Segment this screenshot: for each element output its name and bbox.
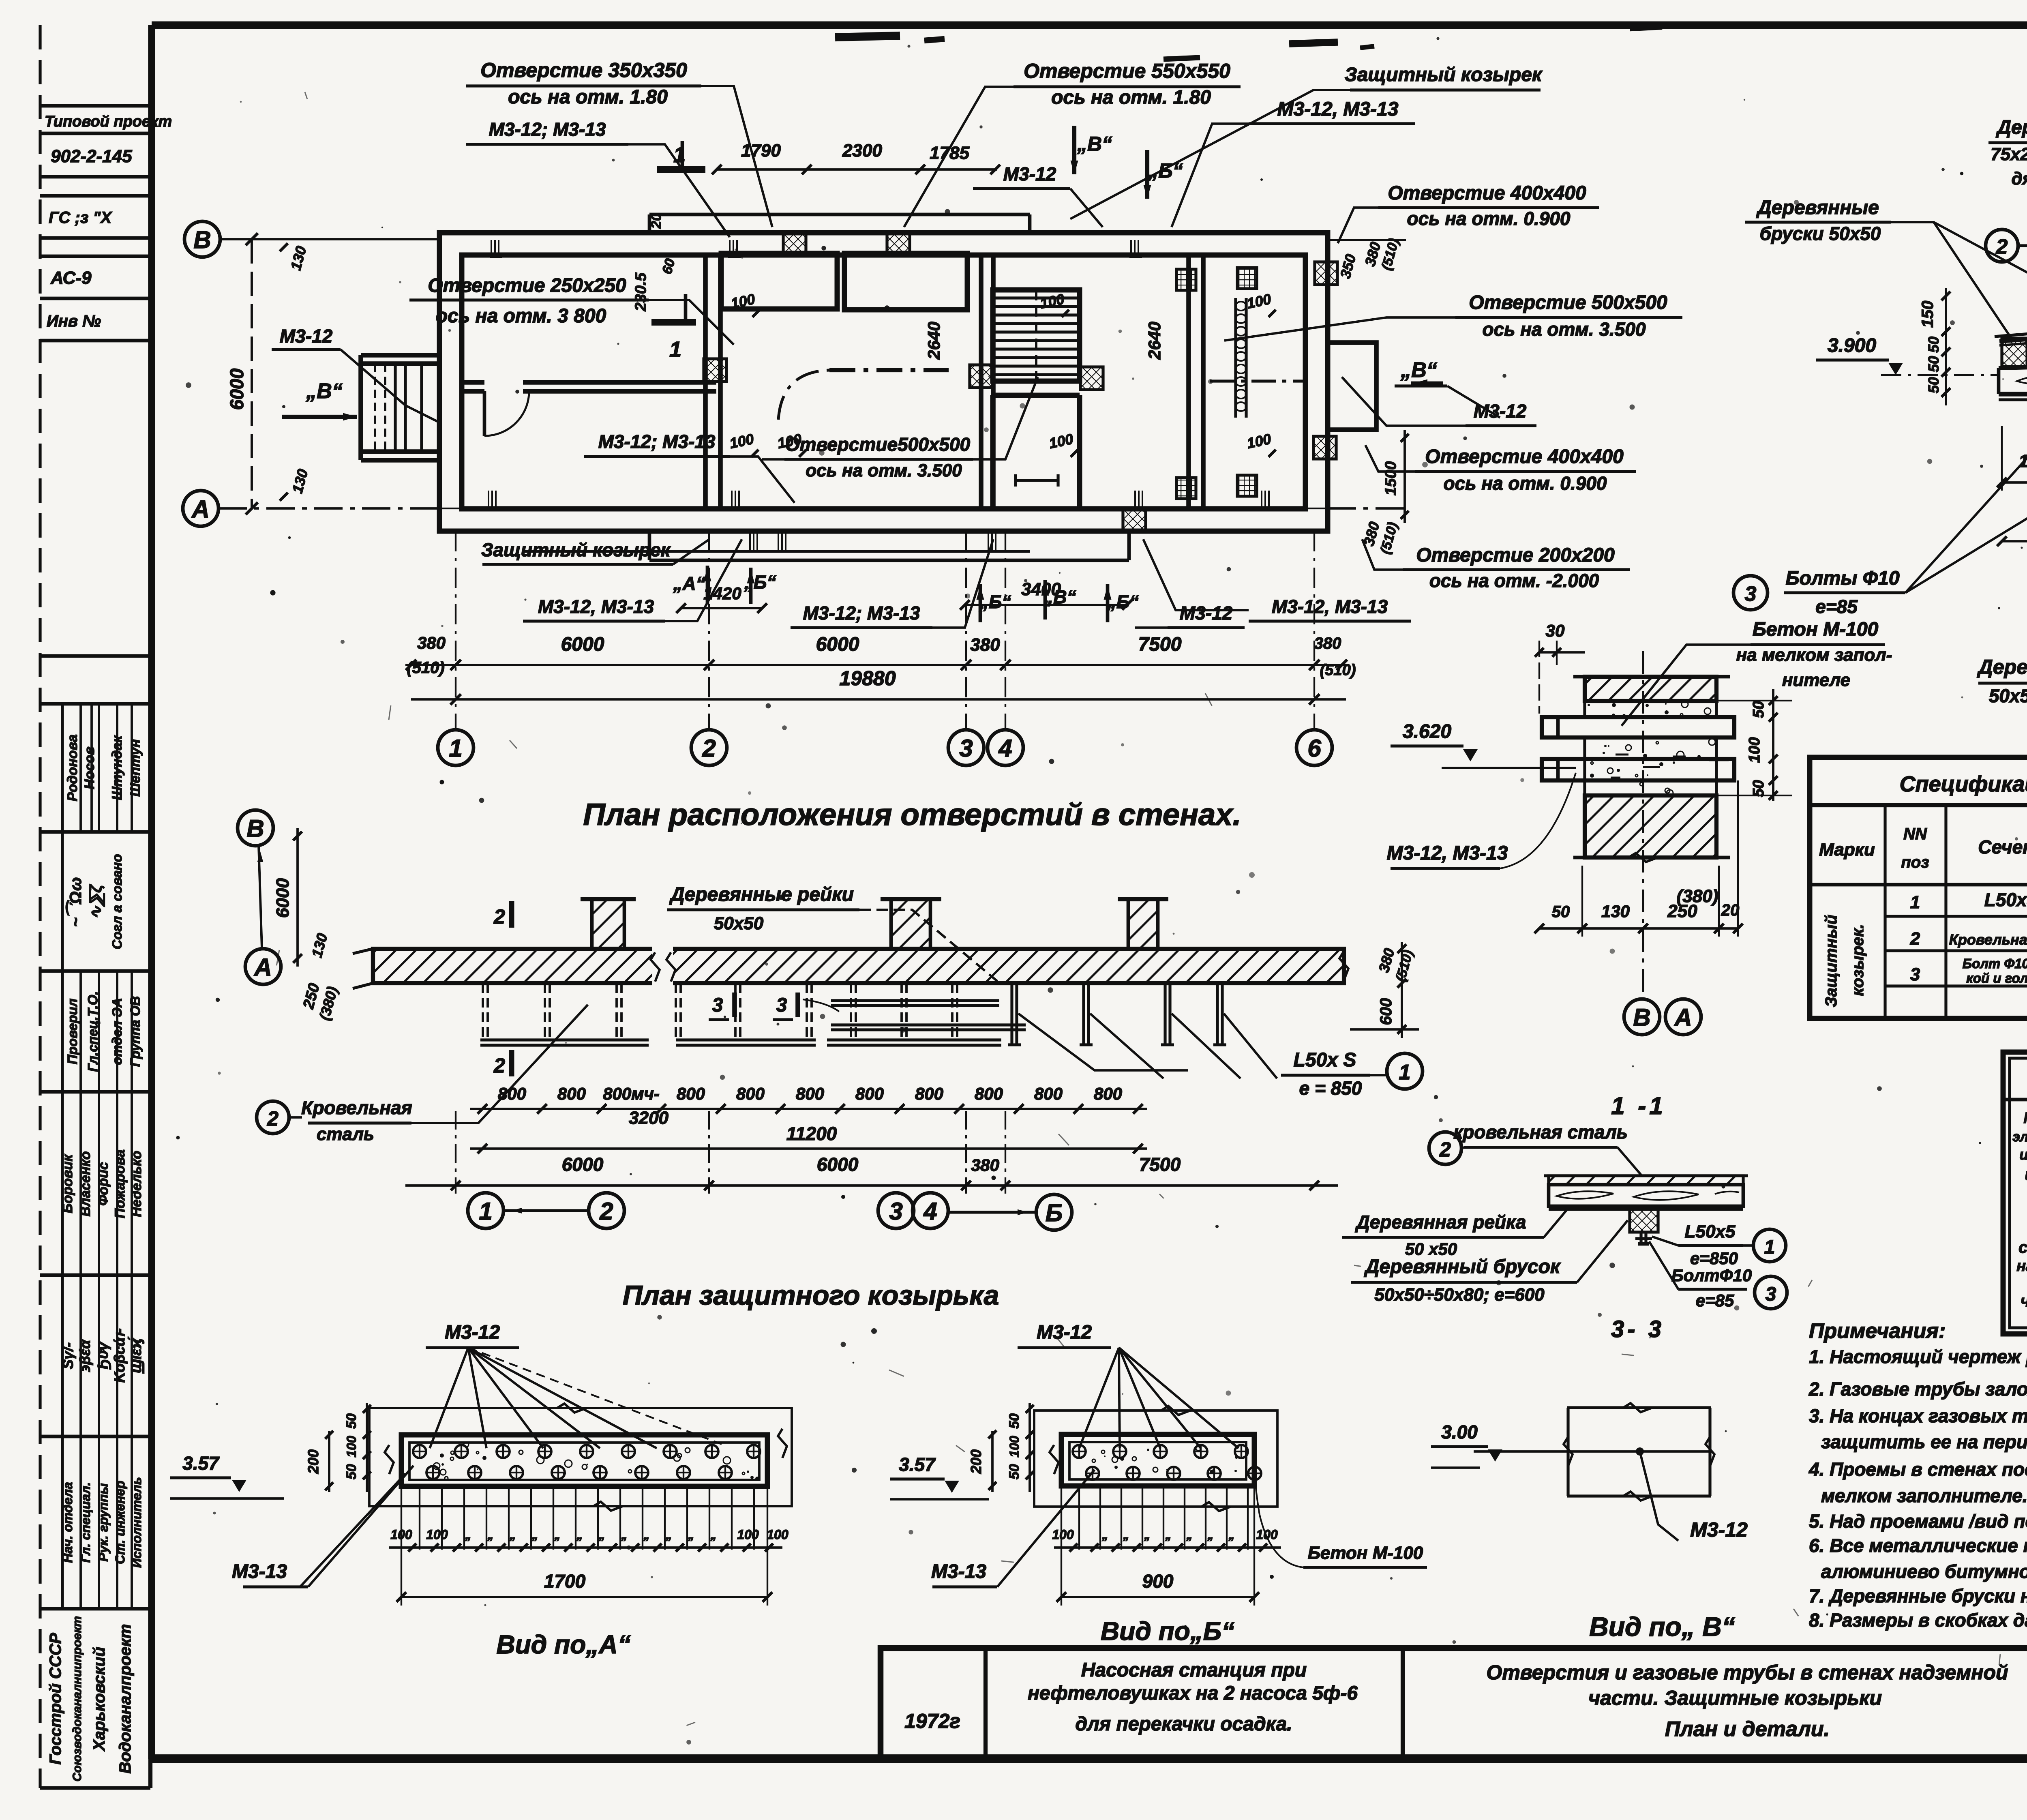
svg-text:Пожарова: Пожарова <box>112 1149 128 1218</box>
detail 2-2 batten squares crosshatch <box>2002 338 2027 367</box>
svg-text:3: 3 <box>712 995 723 1016</box>
svg-text:3.57: 3.57 <box>899 1454 936 1475</box>
axis dash-dot line right room <box>1210 379 1305 382</box>
svg-text:Деревянный брусок: Деревянный брусок <box>1977 656 2027 678</box>
outside stair left <box>361 353 439 358</box>
svg-text:1: 1 <box>1399 1061 1411 1084</box>
door leaf and swing arc left room <box>483 391 486 436</box>
svg-text:7. Деревянные бруски необходим: 7. Деревянные бруски необходимо антисепт… <box>1809 1585 2027 1606</box>
svg-text:бруски 50х50: бруски 50х50 <box>1760 223 1881 244</box>
elevation left end line <box>371 949 375 983</box>
elevation circle 1 right <box>1387 1053 1423 1089</box>
vid A dim 1700 <box>401 1596 767 1598</box>
leader M3-12 M3-13 to wall bottom <box>1143 539 1249 610</box>
vedomost data rows <box>2003 1226 2027 1227</box>
elevation axis extension lines <box>455 1111 456 1194</box>
svg-text:Защитный: Защитный <box>1822 915 1840 1007</box>
svg-text:200: 200 <box>305 1449 321 1474</box>
svg-text:алюминиево битумной краской АЛ: алюминиево битумной краской АЛ-117 (СН-2… <box>1821 1561 2027 1582</box>
svg-text:М3-12, М3-13: М3-12, М3-13 <box>1387 842 1508 864</box>
elevation axis connectors with arrows <box>504 1209 589 1212</box>
svg-text:М3-12: М3-12 <box>1474 401 1527 422</box>
spec table title row <box>1810 803 2027 807</box>
elevation circled 2 krovelnaya stal <box>257 1101 289 1134</box>
svg-text:стены: стены <box>2018 1239 2027 1256</box>
elevation axis circles <box>468 1193 504 1228</box>
title block outer <box>881 1648 2027 1758</box>
svg-text:2: 2 <box>1996 235 2008 259</box>
svg-text:Защитный козырек: Защитный козырек <box>481 539 671 560</box>
svg-text:План и детали.: План и детали. <box>1665 1717 1830 1741</box>
svg-text:Шептун: Шептун <box>128 739 143 797</box>
svg-text:5. Над проемами /вид по„А“и„Б“: 5. Над проемами /вид по„А“и„Б“/ устраива… <box>1809 1511 2027 1532</box>
elevation axis connector <box>259 846 262 949</box>
svg-text:800: 800 <box>796 1084 824 1103</box>
svg-text:Власенко: Власенко <box>78 1151 93 1217</box>
svg-text:„: „ <box>643 1528 650 1542</box>
svg-text:М3-12, М3-13: М3-12, М3-13 <box>1277 99 1399 120</box>
detail 2-2 plank wood grain <box>2017 375 2027 386</box>
svg-text:1. Настоящий чертеж рассматрив: 1. Настоящий чертеж рассматривать совмес… <box>1809 1346 2027 1367</box>
plan axis extension lines <box>455 531 456 730</box>
svg-text:Сечение: Сечение <box>1978 836 2027 857</box>
svg-text:„: „ <box>554 1528 561 1542</box>
svg-text:3.00: 3.00 <box>1441 1421 1478 1443</box>
detail 2-2 dim row 600 <box>2002 540 2027 542</box>
svg-text:Боровик: Боровик <box>60 1154 75 1213</box>
svg-text:800: 800 <box>1034 1084 1063 1103</box>
svg-text:800: 800 <box>557 1084 586 1103</box>
svg-text:Примечания:: Примечания: <box>1809 1319 1946 1343</box>
svg-text:1500: 1500 <box>1382 461 1399 496</box>
svg-text:800: 800 <box>975 1084 1003 1103</box>
svg-text:Вид по„А“: Вид по„А“ <box>496 1630 630 1659</box>
svg-text:3.620: 3.620 <box>1403 721 1451 742</box>
svg-text:козырек.: козырек. <box>1849 924 1867 996</box>
svg-text:Проверил: Проверил <box>65 999 80 1064</box>
svg-text:ось на отм. 1.80: ось на отм. 1.80 <box>1051 87 1211 108</box>
svg-text:50 х50: 50 х50 <box>1405 1239 1457 1258</box>
svg-text:800: 800 <box>855 1084 884 1103</box>
svg-text:(510): (510) <box>1320 662 1356 679</box>
svg-text:2: 2 <box>267 1107 279 1130</box>
svg-text:„Б“: „Б“ <box>979 591 1011 612</box>
svg-text:Б: Б <box>1046 1199 1063 1226</box>
plan bottom dim row 1 <box>405 664 1346 666</box>
svg-text:„: „ <box>666 1528 672 1542</box>
svg-text:В: В <box>193 226 211 253</box>
svg-text:L50х5: L50х5 <box>1685 1222 1736 1241</box>
svg-text:„В“: „В“ <box>1077 133 1112 155</box>
svg-text:100: 100 <box>1007 1436 1022 1458</box>
svg-text:2: 2 <box>493 1054 505 1077</box>
axis line B left <box>184 221 220 257</box>
svg-text:ось на отм. 3.500: ось на отм. 3.500 <box>1482 319 1646 340</box>
svg-text:7500: 7500 <box>1138 634 1182 655</box>
vid V wall lines <box>1567 1406 1711 1409</box>
plan bottom dim row 19880 <box>411 698 1346 701</box>
svg-text:50: 50 <box>1750 701 1767 718</box>
svg-text:„: „ <box>1186 1528 1193 1542</box>
svg-text:„: „ <box>1207 1528 1214 1542</box>
svg-text:„А“: „А“ <box>673 573 705 594</box>
svg-text:800: 800 <box>915 1084 943 1103</box>
svg-text:М3-12: М3-12 <box>1037 1322 1092 1343</box>
svg-text:50: 50 <box>1925 377 1942 393</box>
vid B canopy extent outline <box>1034 1411 1277 1507</box>
dim row 1790 2300 1785 <box>717 168 997 171</box>
elevation section mark 2 bottom <box>509 1050 514 1076</box>
elevation dim 6000 vertical <box>296 828 299 967</box>
svg-text:3: 3 <box>1910 965 1920 984</box>
detail 1-1 roofing steel strip <box>1549 1176 1743 1185</box>
detail 2-2 circle 3 bolty <box>1733 576 1768 610</box>
svg-text:Согл а совано: Согл а совано <box>109 854 124 949</box>
svg-text:11200: 11200 <box>786 1123 837 1144</box>
door swing arc middle room dash-dot <box>778 370 829 420</box>
svg-text:50: 50 <box>1925 356 1942 372</box>
svg-text:Гл.спец.Т.О.: Гл.спец.Т.О. <box>85 991 100 1072</box>
sleeve detail right dims 50 100 50 <box>1772 689 1774 801</box>
svg-text:Ϣιεϗ́: Ϣιεϗ́ <box>128 1337 144 1374</box>
svg-text:100: 100 <box>767 1527 789 1542</box>
svg-text:6. Все металлические конструкц: 6. Все металлические конструкции козырьк… <box>1809 1535 2027 1556</box>
svg-text:3- 3: 3- 3 <box>1611 1316 1665 1342</box>
title block verticals <box>984 1648 988 1758</box>
svg-text:„: „ <box>1228 1528 1235 1542</box>
svg-text:50х50: 50х50 <box>714 913 764 933</box>
svg-text:50: 50 <box>1925 337 1942 353</box>
svg-text:2: 2 <box>702 735 716 762</box>
svg-text:„: „ <box>510 1528 516 1542</box>
stair block treads <box>993 290 1080 381</box>
svg-text:6000: 6000 <box>562 1154 604 1175</box>
sleeve detail pipe bar upper <box>1542 717 1734 737</box>
svg-text:Насосная станция при: Насосная станция при <box>1081 1659 1307 1681</box>
svg-text:нефтеловушках на 2 насоса 5ф-6: нефтеловушках на 2 насоса 5ф-6 <box>1028 1683 1358 1704</box>
vid A bolts bottom row <box>426 1466 439 1479</box>
svg-text:Вид по„Б“: Вид по„Б“ <box>1101 1616 1234 1646</box>
svg-text:„В“: „В“ <box>306 379 343 403</box>
elevation dim row 800 <box>470 1108 1147 1110</box>
elevation section mark 2 top <box>509 901 514 928</box>
svg-text:75х20 прибить гвоз-: 75х20 прибить гвоз- <box>1991 144 2027 164</box>
vid B left dims <box>1028 1403 1031 1492</box>
svg-text:части: части <box>2021 1292 2027 1310</box>
svg-text:В: В <box>246 815 264 842</box>
svg-text:М3-12: М3-12 <box>445 1322 500 1343</box>
svg-text:М3-13: М3-13 <box>232 1561 287 1582</box>
svg-text:Отверстие 400х400: Отверстие 400х400 <box>1425 446 1624 467</box>
svg-text:800: 800 <box>498 1084 526 1103</box>
svg-text:(510): (510) <box>407 659 444 677</box>
svg-text:мелком заполнителе.: мелком заполнителе. <box>1821 1485 2027 1506</box>
svg-text:3400: 3400 <box>1021 579 1061 599</box>
svg-text:М3-12: М3-12 <box>1690 1518 1748 1541</box>
detail 2-2 canopy wood plank <box>1999 362 2027 368</box>
vid A plate speckles <box>565 1460 572 1467</box>
svg-text:3: 3 <box>889 1198 902 1225</box>
svg-text:50: 50 <box>344 1464 359 1479</box>
elevation battens left group <box>482 983 484 1040</box>
dim 3400 <box>965 604 1127 606</box>
svg-text:800мч-: 800мч- <box>603 1084 660 1103</box>
svg-text:элемента: элемента <box>2012 1129 2027 1145</box>
svg-text:Группа ОВ: Группа ОВ <box>128 996 143 1067</box>
spec table data row lines <box>1885 915 2027 918</box>
svg-text:19880: 19880 <box>839 667 896 690</box>
scan noise speckles <box>1132 377 1134 380</box>
svg-text:∿⅀ζ: ∿⅀ζ <box>87 884 105 920</box>
svg-text:„: „ <box>1102 1528 1108 1542</box>
svg-text:„: „ <box>576 1528 583 1542</box>
svg-text:1700: 1700 <box>544 1571 586 1592</box>
svg-text:„: „ <box>710 1528 717 1542</box>
svg-text:Харьковский: Харьковский <box>90 1647 108 1751</box>
svg-text:Отверстия и газовые трубы в ст: Отверстия и газовые трубы в стенах надзе… <box>1486 1661 2008 1684</box>
svg-text:штук: штук <box>2025 1166 2027 1183</box>
svg-text:2. Газовые трубы заложить под: 2. Газовые трубы заложить под наблюдение… <box>1808 1378 2027 1400</box>
vid V axis line with node <box>1474 1450 1709 1453</box>
svg-text:для перекачки осадка.: для перекачки осадка. <box>1075 1713 1292 1735</box>
svg-text:ось на отм. 0.900: ось на отм. 0.900 <box>1443 473 1607 494</box>
svg-text:L50х S: L50х S <box>1294 1049 1356 1071</box>
svg-text:4: 4 <box>998 735 1012 762</box>
svg-text:100: 100 <box>737 1527 759 1542</box>
svg-text:Отверстие 550х550: Отверстие 550х550 <box>1024 60 1230 82</box>
svg-text:кой и головкой: кой и головкой <box>1966 971 2027 986</box>
svg-text:е=850: е=850 <box>1690 1249 1738 1268</box>
elevation angle rails middle <box>831 999 999 1002</box>
svg-text:ось на отм. 3.500: ось на отм. 3.500 <box>806 461 962 480</box>
vid B extension grid <box>1078 1486 1080 1550</box>
svg-text:М3-12; М3-13: М3-12; М3-13 <box>489 119 606 140</box>
svg-text:„: „ <box>1123 1528 1129 1542</box>
svg-text:100: 100 <box>426 1527 448 1542</box>
svg-text:М3-12: М3-12 <box>1180 602 1233 624</box>
svg-text:1 -1: 1 -1 <box>1611 1092 1666 1119</box>
elevation bottom board left <box>480 1038 649 1041</box>
room box middle right <box>844 253 967 310</box>
room box middle left <box>721 253 837 309</box>
svg-text:7500: 7500 <box>1139 1154 1181 1175</box>
vid A dim line 100s <box>389 1546 782 1549</box>
svg-text:Отверстие 350х350: Отверстие 350х350 <box>480 59 687 81</box>
plan axis circles bottom <box>438 730 474 765</box>
svg-text:Болт Ф10 с гай-: Болт Ф10 с гай- <box>1963 956 2027 971</box>
svg-text:„В“: „В“ <box>1400 358 1437 382</box>
svg-text:Гл. специал.: Гл. специал. <box>78 1482 93 1563</box>
detail 2-2 dim row 150 300 150 <box>2002 481 2027 484</box>
svg-text:В: В <box>1633 1004 1650 1031</box>
elevation pilaster 3 <box>1128 899 1158 949</box>
svg-text:3.900: 3.900 <box>1828 335 1876 356</box>
svg-text:поз: поз <box>1901 853 1929 871</box>
svg-text:А: А <box>253 954 272 981</box>
svg-text:А: А <box>191 495 209 523</box>
svg-text:Деревянный брусок: Деревянный брусок <box>1364 1256 1561 1278</box>
svg-text:БолтФ10: БолтФ10 <box>1671 1266 1752 1285</box>
svg-text:Бетон М-100: Бетон М-100 <box>1308 1543 1423 1563</box>
scan smudges top <box>835 36 900 37</box>
stamp upper cells <box>40 104 150 108</box>
sleeve detail axis circles B A <box>1624 999 1660 1035</box>
svg-text:ось на отм. 3 800: ось на отм. 3 800 <box>436 305 606 327</box>
svg-text:50х50÷50х80; е=600: 50х50÷50х80; е=600 <box>1989 685 2027 706</box>
left stamp column rails <box>39 25 41 1788</box>
svg-text:200: 200 <box>968 1449 984 1474</box>
svg-text:2300: 2300 <box>842 141 882 161</box>
svg-text:Родонова: Родонова <box>65 734 80 801</box>
svg-text:„: „ <box>1165 1528 1172 1542</box>
svg-text:План расположения отверстий: План расположения отверстий в стенах. <box>583 797 1241 832</box>
svg-text:3.57: 3.57 <box>182 1453 220 1474</box>
svg-text:50: 50 <box>1552 903 1570 921</box>
canopy outline above top wall <box>649 213 1030 217</box>
svg-text:380: 380 <box>970 635 1000 655</box>
svg-text:150: 150 <box>1919 301 1937 328</box>
vid A canopy extent outline <box>369 1408 792 1506</box>
vid B plate speckles <box>1114 1466 1118 1469</box>
svg-text:„: „ <box>621 1528 628 1542</box>
svg-text:дями к пробкам: дями к пробкам <box>2011 169 2027 189</box>
svg-text:Отверстие 200х200: Отверстие 200х200 <box>1416 544 1615 566</box>
svg-text:6000: 6000 <box>561 634 604 655</box>
svg-text:М3-12; М3-13: М3-12; М3-13 <box>598 431 716 452</box>
embedded plate marks <box>729 240 731 257</box>
svg-text:Деревянные рейки: Деревянные рейки <box>669 884 854 905</box>
svg-text:100: 100 <box>1052 1527 1074 1542</box>
svg-text:2: 2 <box>1439 1138 1451 1161</box>
ladder right room <box>1234 298 1237 418</box>
vedomost table outer box <box>2003 1052 2027 1334</box>
detail 1-1 batten block <box>1630 1209 1658 1232</box>
svg-text:А: А <box>1673 1004 1692 1031</box>
svg-text:100: 100 <box>1256 1527 1278 1542</box>
detail 1-1 wood plank body <box>1549 1185 1743 1206</box>
svg-text:50: 50 <box>1007 1464 1022 1479</box>
svg-text:М3-13: М3-13 <box>931 1561 986 1582</box>
svg-text:Деревянная рейка: Деревянная рейка <box>1354 1211 1526 1233</box>
partition wall stairwell right <box>1186 255 1191 509</box>
elevation pilaster 2 <box>891 899 930 949</box>
interior wall left room with door opening <box>462 380 484 385</box>
svg-text:„: „ <box>1144 1528 1151 1542</box>
svg-text:Водоканалпроект: Водоканалпроект <box>116 1624 134 1774</box>
vid B bolts top row <box>1073 1445 1086 1458</box>
dim 6000 vertical left <box>251 239 253 508</box>
svg-text:3. На концах газовых труб для: 3. На концах газовых труб для электрокаб… <box>1809 1405 2027 1426</box>
svg-text:380: 380 <box>1314 635 1341 652</box>
svg-text:Носов: Носов <box>82 746 97 789</box>
svg-text:„: „ <box>688 1528 694 1542</box>
svg-text:нителе: нителе <box>1782 670 1850 690</box>
detail 2-2 left dim stack <box>1945 288 1947 405</box>
svg-text:Форис: Форис <box>96 1162 111 1206</box>
svg-text:М3-12, М3-13: М3-12, М3-13 <box>538 596 654 617</box>
svg-text:2: 2 <box>1910 929 1920 949</box>
svg-text:NN: NN <box>1903 825 1927 843</box>
elevation wall band hatched <box>373 949 1344 983</box>
svg-text:100: 100 <box>1746 737 1763 763</box>
svg-text:380: 380 <box>971 1155 999 1175</box>
opening hatch squares on walls <box>783 232 806 254</box>
svg-text:3: 3 <box>776 995 787 1016</box>
svg-text:кровельная сталь: кровельная сталь <box>1453 1121 1628 1143</box>
svg-text:и колич: и колич <box>2019 1146 2027 1163</box>
svg-text:3: 3 <box>959 735 973 762</box>
stamp signature table box <box>40 654 150 658</box>
svg-text:е = 850: е = 850 <box>1299 1078 1362 1099</box>
mesh squares right room <box>1176 269 1196 290</box>
svg-text:М3-12: М3-12 <box>280 326 333 347</box>
svg-text:части. Защитные козырьки: части. Защитные козырьки <box>1588 1687 1882 1709</box>
svg-text:Марки: Марки <box>1819 840 1875 860</box>
svg-text:20: 20 <box>1721 901 1740 919</box>
svg-text:ось на отм. 1.80: ось на отм. 1.80 <box>508 86 668 108</box>
svg-text:6000: 6000 <box>817 1154 859 1175</box>
svg-text:Кровельная: Кровельная <box>301 1097 412 1118</box>
spec table outer box <box>1810 757 2027 1018</box>
svg-text:130: 130 <box>1601 902 1630 921</box>
svg-text:Типовой проект: Типовой проект <box>45 113 172 130</box>
sleeve detail concrete band top speckled <box>1585 701 1716 717</box>
svg-text:230.5: 230.5 <box>632 272 649 312</box>
detail 1-1 bolt <box>1639 1232 1642 1244</box>
svg-text:План защитного козырька: План защитного козырька <box>623 1280 999 1311</box>
svg-text:2640: 2640 <box>1145 322 1164 360</box>
spec table column lines <box>1883 805 1886 1018</box>
svg-text:Исполнитель: Исполнитель <box>129 1477 144 1568</box>
stair lower room <box>993 393 1080 398</box>
vid A bolts top row <box>413 1445 426 1458</box>
svg-text:е=85: е=85 <box>1696 1291 1734 1310</box>
svg-text:1790: 1790 <box>741 141 781 161</box>
elevation band break marks <box>652 945 673 986</box>
partition wall axis3 <box>979 255 984 509</box>
svg-text:ГС ;з "Х: ГС ;з "Х <box>49 209 112 227</box>
detail 1-1 circle 2 label <box>1429 1132 1461 1164</box>
svg-text:50: 50 <box>344 1413 359 1429</box>
elevation pilaster 1 <box>592 899 624 949</box>
svg-text:1: 1 <box>449 735 462 762</box>
right annex room <box>1328 343 1376 430</box>
svg-text:М3-12: М3-12 <box>1003 163 1056 184</box>
svg-text:Союзводоканалниипроект: Союзводоканалниипроект <box>71 1616 84 1781</box>
svg-text:ось на отм. 0.900: ось на отм. 0.900 <box>1407 208 1570 229</box>
svg-text:4. Проемы в стенах после монта: 4. Проемы в стенах после монтажа труб за… <box>1808 1459 2027 1480</box>
svg-text:Ст. инженер: Ст. инженер <box>113 1481 127 1564</box>
svg-text:6000: 6000 <box>273 878 293 918</box>
section mark 1 top <box>657 166 705 173</box>
svg-text:„: „ <box>465 1528 471 1542</box>
svg-text:Защитный козырек: Защитный козырек <box>1345 64 1543 86</box>
vid B plate <box>1061 1434 1254 1486</box>
svg-text:на мелком запол-: на мелком запол- <box>1736 645 1892 665</box>
svg-text:2: 2 <box>599 1198 613 1225</box>
svg-text:8. Размеры в скобках даны для: 8. Размеры в скобках даны для расчетной … <box>1809 1610 2027 1631</box>
svg-text:Кровельная сталь: Кровельная сталь <box>1949 931 2027 948</box>
svg-text:380: 380 <box>417 633 446 652</box>
axis line A left <box>183 491 219 526</box>
svg-text:4: 4 <box>923 1198 937 1225</box>
svg-text:Госстрой СССР: Госстрой СССР <box>47 1633 64 1764</box>
vid A left dims <box>366 1403 368 1492</box>
elevation leaders to L50x5 <box>1018 1014 1188 1070</box>
elevation axis circle A <box>245 949 281 984</box>
svg-text:50х50÷50х80; е=600: 50х50÷50х80; е=600 <box>1374 1285 1545 1305</box>
detail 2-2 roofing steel sheet sloped <box>1999 321 2027 341</box>
